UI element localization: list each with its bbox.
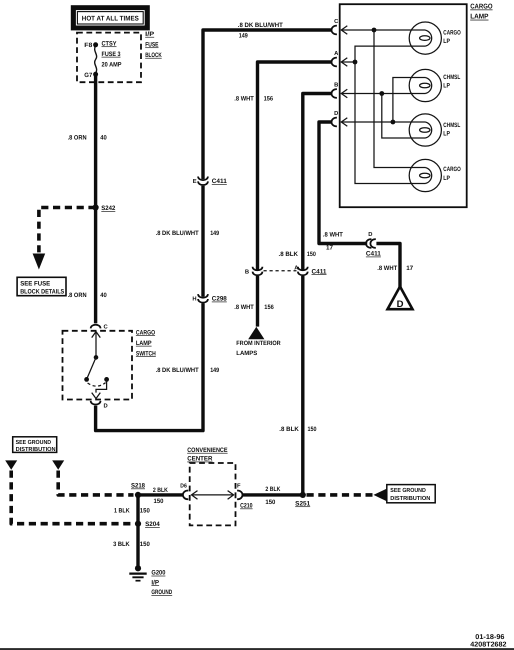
svg-text:I/P: I/P [145, 31, 155, 38]
svg-text:BLOCK DETAILS: BLOCK DETAILS [20, 288, 65, 295]
svg-text:150: 150 [140, 507, 150, 514]
svg-text:E: E [193, 179, 197, 185]
svg-text:F8: F8 [84, 42, 93, 49]
svg-text:LAMP: LAMP [136, 340, 152, 347]
svg-text:FUSE: FUSE [145, 41, 159, 48]
svg-text:CARGO: CARGO [136, 329, 155, 336]
svg-text:40: 40 [100, 135, 107, 142]
svg-text:LP: LP [443, 83, 450, 90]
svg-text:LP: LP [443, 131, 450, 138]
svg-text:CARGO: CARGO [443, 30, 461, 37]
svg-text:CARGO: CARGO [443, 166, 461, 173]
svg-text:150: 150 [307, 251, 316, 258]
svg-text:G200: G200 [151, 570, 165, 577]
svg-text:LAMPS: LAMPS [236, 350, 257, 357]
svg-text:DISTRIBUTION: DISTRIBUTION [16, 446, 56, 453]
svg-text:CONVENIENCE: CONVENIENCE [187, 447, 228, 454]
svg-text:FUSE 3: FUSE 3 [102, 51, 121, 58]
svg-text:B: B [334, 83, 338, 89]
svg-text:20 AMP: 20 AMP [102, 61, 123, 68]
svg-text:.8 DK BLU/WHT: .8 DK BLU/WHT [238, 22, 283, 29]
svg-text:C411: C411 [212, 178, 227, 185]
svg-text:.8 DK BLU/WHT: .8 DK BLU/WHT [156, 230, 199, 237]
svg-text:CHMSL: CHMSL [443, 122, 460, 129]
svg-text:CTSY: CTSY [102, 40, 118, 47]
svg-text:LP: LP [443, 175, 450, 182]
svg-text:2 BLK: 2 BLK [153, 487, 168, 494]
svg-text:S218: S218 [131, 483, 145, 490]
svg-text:149: 149 [210, 367, 219, 374]
svg-text:LAMP: LAMP [470, 14, 489, 21]
svg-text:150: 150 [265, 499, 275, 506]
svg-text:D6: D6 [180, 483, 187, 490]
svg-text:LP: LP [443, 38, 450, 45]
svg-text:BLOCK: BLOCK [145, 52, 162, 59]
svg-text:S242: S242 [101, 205, 115, 212]
svg-text:CENTER: CENTER [187, 456, 213, 463]
svg-text:SWITCH: SWITCH [136, 350, 156, 357]
svg-text:3 BLK: 3 BLK [113, 541, 130, 548]
svg-text:SEE GROUND: SEE GROUND [390, 487, 426, 494]
svg-text:C298: C298 [212, 296, 227, 303]
svg-text:156: 156 [264, 95, 274, 102]
svg-text:01-18-96: 01-18-96 [475, 634, 504, 641]
svg-text:.8 DK BLU/WHT: .8 DK BLU/WHT [156, 367, 199, 374]
svg-text:4208T2682: 4208T2682 [470, 641, 506, 648]
svg-text:.8 WHT: .8 WHT [234, 304, 254, 311]
svg-text:H: H [192, 297, 196, 303]
svg-text:HOT AT ALL TIMES: HOT AT ALL TIMES [82, 15, 139, 22]
svg-text:C411: C411 [366, 251, 381, 258]
svg-text:.8 BLK: .8 BLK [279, 426, 299, 433]
svg-text:.8 WHT: .8 WHT [323, 232, 343, 239]
svg-text:40: 40 [100, 292, 107, 299]
svg-text:1 BLK: 1 BLK [114, 507, 130, 514]
svg-text:S251: S251 [295, 500, 310, 507]
svg-text:.8 ORN: .8 ORN [68, 135, 87, 142]
svg-text:CARGO: CARGO [470, 4, 493, 11]
svg-text:.8 ORN: .8 ORN [68, 292, 87, 299]
svg-text:D: D [368, 232, 372, 238]
svg-text:G7: G7 [84, 72, 93, 79]
svg-text:DISTRIBUTION: DISTRIBUTION [390, 495, 430, 502]
svg-text:FROM INTERIOR: FROM INTERIOR [236, 340, 281, 347]
svg-text:CHMSL: CHMSL [443, 74, 460, 81]
svg-text:D: D [397, 299, 404, 310]
svg-text:2 BLK: 2 BLK [265, 486, 280, 493]
svg-text:156: 156 [264, 304, 274, 311]
svg-text:150: 150 [140, 541, 150, 548]
svg-text:SEE GROUND: SEE GROUND [16, 439, 52, 446]
svg-text:B: B [245, 269, 249, 275]
svg-text:D: D [334, 111, 338, 117]
svg-text:F: F [237, 484, 241, 490]
svg-text:149: 149 [239, 33, 248, 40]
svg-text:.8 BLK: .8 BLK [279, 251, 299, 258]
svg-text:I/P: I/P [151, 579, 159, 586]
svg-text:C411: C411 [312, 268, 327, 275]
svg-text:17: 17 [326, 244, 333, 251]
svg-text:150: 150 [308, 426, 317, 433]
svg-text:S204: S204 [145, 521, 160, 528]
svg-text:17: 17 [406, 265, 413, 272]
svg-text:GROUND: GROUND [151, 589, 172, 596]
svg-text:149: 149 [210, 230, 219, 237]
svg-text:.8 WHT: .8 WHT [377, 265, 397, 272]
svg-text:D: D [104, 403, 108, 409]
svg-text:150: 150 [154, 498, 164, 505]
svg-text:C210: C210 [240, 503, 253, 510]
svg-text:SEE FUSE: SEE FUSE [20, 280, 51, 287]
svg-text:.8 WHT: .8 WHT [234, 95, 254, 102]
